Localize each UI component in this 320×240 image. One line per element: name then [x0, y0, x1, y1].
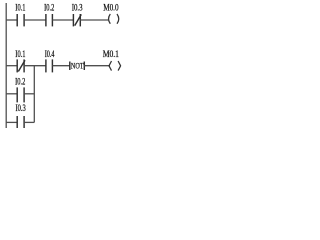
contact I0.4 (NO) row2: [45, 59, 47, 72]
wire rung1 rail to I0.1: [6, 19, 17, 21]
svg-text:I0.4: I0.4: [45, 49, 55, 59]
contact I0.1 (NC) row2: [16, 59, 18, 72]
svg-text:M0.1: M0.1: [103, 49, 119, 59]
svg-text:M0.0: M0.0: [103, 3, 119, 13]
contact I0.2 (NO) row1: [45, 14, 47, 26]
wire branch2 rail to I0.3: [6, 121, 17, 123]
wire branch2 I0.3 to junction: [24, 121, 34, 123]
wire rung2 I0.4 to NOT: [52, 65, 69, 67]
wire rung2 NOT to coil M0.1: [84, 65, 110, 67]
contact I0.3 (NO) branch2: [16, 116, 18, 128]
svg-text:I0.3: I0.3: [16, 103, 27, 113]
coil M0.0: [109, 14, 111, 24]
wire branch1 rail to I0.2: [6, 93, 17, 95]
coil M0.1: [109, 61, 112, 71]
wire rung2 rail to I0.1: [6, 65, 17, 67]
wire rung2 I0.1 to I0.4 (with junction node): [24, 65, 46, 67]
svg-text:I0.3: I0.3: [72, 3, 83, 13]
junction vertical wire (branch join at node after I0.1 row2): [33, 66, 35, 123]
wire rung1 I0.1 to I0.2: [24, 19, 46, 21]
NOT element bars: [69, 62, 71, 71]
contact I0.3 (NC) row1: [72, 14, 74, 26]
wire branch1 I0.2 to junction: [24, 93, 34, 95]
svg-text:NOT: NOT: [71, 60, 84, 70]
svg-text:I0.1: I0.1: [15, 3, 25, 13]
contact I0.2 (NO) branch1: [16, 87, 18, 102]
left power rail: [5, 3, 7, 128]
wire rung1 I0.2 to I0.3: [52, 19, 73, 21]
svg-text:I0.2: I0.2: [15, 76, 25, 86]
contact I0.1 (NO) row1: [16, 14, 18, 26]
svg-text:I0.1: I0.1: [15, 49, 25, 59]
svg-text:I0.2: I0.2: [44, 3, 54, 13]
wire rung1 I0.3 to coil M0.0: [80, 19, 108, 21]
